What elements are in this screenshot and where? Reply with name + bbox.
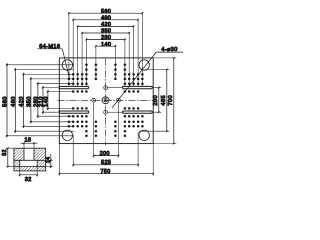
svg-text:14: 14 <box>46 156 52 163</box>
bottom dimension 525 <box>73 164 138 166</box>
svg-text:525: 525 <box>101 160 111 166</box>
left dimension 420 <box>23 73 25 128</box>
svg-text:280: 280 <box>101 35 111 41</box>
svg-text:420: 420 <box>19 96 25 107</box>
top dimension 420 <box>78 25 134 27</box>
corner hole bottom-left <box>62 130 72 140</box>
ejector hole south node <box>104 110 108 114</box>
detail dimension 32 left <box>7 148 9 166</box>
corner hole bottom-right <box>139 130 149 140</box>
T-slot detail hatching <box>14 148 46 171</box>
T-slot right upper <box>123 86 153 88</box>
svg-text:490: 490 <box>11 96 17 107</box>
M16 tapped holes top-right quadrant <box>141 73 144 76</box>
slot row extension south node to right slot <box>108 111 123 113</box>
left dimension 280 <box>37 82 39 118</box>
svg-text:420: 420 <box>101 22 111 28</box>
svg-text:200: 200 <box>153 95 159 106</box>
ejector hole north node <box>104 86 108 90</box>
ejector hole east node <box>117 98 121 102</box>
svg-text:18: 18 <box>25 138 32 144</box>
detail dimension 32 bottom <box>20 174 37 176</box>
T-slot detail outline <box>14 148 46 171</box>
detail dimension 18 <box>21 142 38 144</box>
svg-text:200: 200 <box>100 151 110 157</box>
right dimension 485 <box>166 70 168 132</box>
top dimension 490 <box>73 19 138 21</box>
svg-text:560: 560 <box>3 96 9 107</box>
top dimension 280 <box>86 39 125 41</box>
bottom dimension 750 <box>59 173 153 175</box>
T-slot left lower <box>59 111 89 113</box>
T-slot detail notch <box>23 148 25 160</box>
svg-text:485: 485 <box>161 95 167 106</box>
left dimension 350 <box>30 77 32 123</box>
corner hole top-right <box>139 60 149 70</box>
svg-text:700: 700 <box>168 95 174 106</box>
svg-text:140: 140 <box>101 42 111 48</box>
central locating hole <box>102 97 109 104</box>
M16 tapped holes bottom-right quadrant <box>141 125 144 128</box>
T-slot left upper <box>59 86 89 88</box>
svg-text:560: 560 <box>101 9 111 15</box>
right dimension 700 <box>173 58 175 144</box>
svg-text:350: 350 <box>26 96 32 107</box>
ejector hole west node <box>92 98 96 102</box>
top dimension 350 <box>82 32 129 34</box>
left dimension 210 <box>42 86 44 114</box>
svg-text:490: 490 <box>101 15 111 21</box>
top dimension 560 <box>69 12 142 14</box>
top dimension 140 <box>96 45 116 47</box>
left dimension 140 <box>47 90 49 110</box>
M16 tapped holes top-left quadrant <box>68 73 71 76</box>
svg-text:140: 140 <box>43 96 49 107</box>
slot row extension north node to right slot <box>108 87 123 89</box>
svg-text:350: 350 <box>101 29 111 35</box>
bottom dimension 200 <box>94 155 119 157</box>
svg-text:750: 750 <box>100 169 110 175</box>
detail dimension 14 right <box>50 154 52 168</box>
T-slot detail channel <box>14 159 46 161</box>
platen plate outline <box>59 58 153 144</box>
svg-text:32: 32 <box>2 149 8 156</box>
M16 tapped holes bottom-left quadrant <box>68 125 71 128</box>
corner hole top-left <box>62 60 72 70</box>
vertical centerline <box>105 59 107 146</box>
left dimension 490 <box>14 68 16 133</box>
svg-text:32: 32 <box>25 177 32 183</box>
T-slot right lower <box>123 111 153 113</box>
right dimension 200 <box>158 88 160 113</box>
horizontal centerline <box>58 99 156 101</box>
left dimension 560 <box>6 63 8 137</box>
